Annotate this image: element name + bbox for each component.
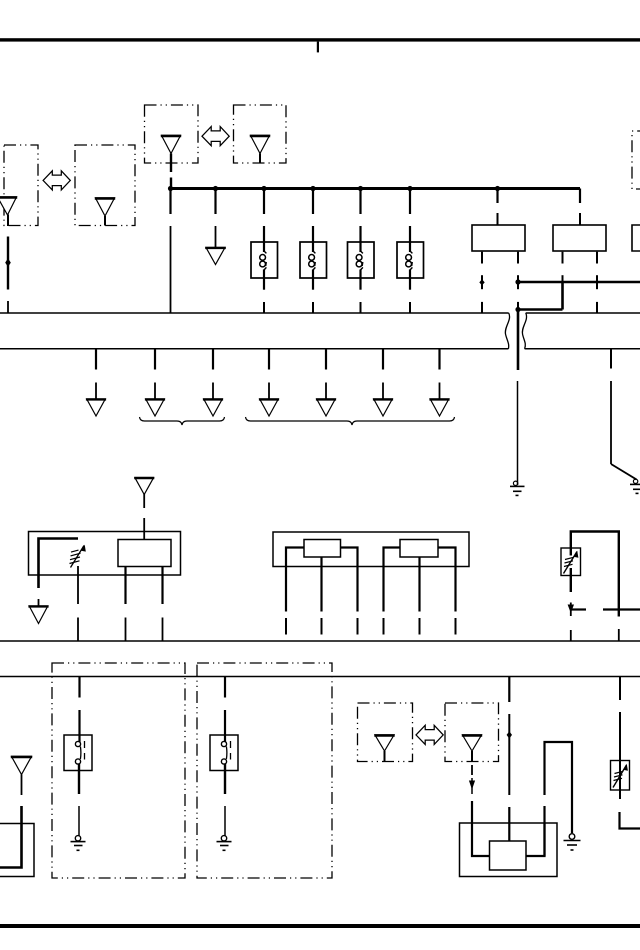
module box M2b (400, 540, 438, 558)
coupling arrow S5-S6 (416, 725, 443, 744)
bus wire (feeder) (171, 187, 581, 190)
harness tap t4 (259, 349, 279, 416)
harness tap t8 to ground G2 (611, 349, 637, 480)
wire A5 to amp box (143, 494, 145, 540)
filter box U2 (553, 225, 606, 251)
ground G1 (510, 481, 525, 495)
wire A8 down (469, 751, 475, 823)
top border line (0, 38, 640, 41)
wire line B right drop (619, 677, 621, 800)
shield box S6 (dash-dot) (445, 703, 499, 762)
ground G4 (71, 836, 86, 851)
wire M2b pin2 (418, 557, 420, 635)
wire bus to U1 (496, 189, 498, 226)
wire SW1 to ground G4 (78, 764, 80, 836)
wire line B to switch SW1 (78, 677, 80, 743)
antenna A3 (162, 136, 181, 154)
wire VR2 down (570, 548, 572, 592)
wire U2 pin1 elbow (518, 252, 563, 310)
junction dot n9 (515, 307, 520, 312)
shield box S3 (dash-dot) (145, 105, 199, 163)
wire to right edge (518, 281, 640, 284)
choke L4 (397, 189, 424, 314)
wire to right edge mid (603, 608, 640, 610)
wire U2 pin2 (596, 252, 598, 313)
wire M2a pin3 (341, 548, 358, 635)
harness tap t2 (145, 349, 165, 416)
wire M2a pin1 (286, 548, 304, 635)
filter box U3 (clipped right) (632, 225, 640, 251)
ground G2 (630, 479, 640, 493)
wire M1a pin2 (161, 567, 163, 642)
page arrow below M1 (28, 599, 48, 624)
wire drop d2 with page arrow (205, 189, 226, 265)
shield box S4 (dash-dot) (234, 105, 287, 163)
shield box S1 (dash-dot, clipped left) (4, 145, 38, 226)
wire B3 pin1 elbow (472, 823, 490, 856)
wire M2b pin1 (384, 548, 401, 635)
wire stub A1 to harness (7, 301, 9, 313)
stub M3a to bus (570, 630, 572, 641)
junction dot n5 (358, 186, 363, 191)
choke L2 (300, 189, 327, 314)
harness line lower (0, 348, 640, 350)
junction dot n6 (407, 186, 412, 191)
antenna A5 (135, 478, 154, 495)
distribution line B (0, 676, 640, 678)
connector arrow on A1 wire (5, 258, 11, 267)
wire B3 pin3 elbow (526, 823, 545, 856)
module box M2a (304, 540, 341, 558)
shield box S2 (dash-dot) (75, 145, 135, 226)
wire SW2 to ground G5 (224, 764, 226, 836)
bottom border line (0, 924, 640, 928)
wire U1 pin2 (517, 252, 519, 290)
coupling arrow S3-S4 (202, 127, 229, 146)
variable attenuator VR2 box (561, 548, 581, 576)
variable attenuator VR1 (70, 545, 86, 568)
top border tick (317, 42, 319, 53)
stub M3b to bus (618, 629, 620, 641)
connector arrow M3 (568, 603, 586, 617)
harness tap t7 (429, 349, 449, 416)
ground G5 (217, 836, 232, 851)
choke L3 (348, 189, 375, 314)
wire line B to switch SW2 (224, 677, 226, 743)
module box B3a (490, 841, 527, 870)
antenna A7 stub (384, 751, 386, 762)
harness tap t1 (86, 349, 106, 416)
antenna A1 (0, 197, 17, 215)
harness tap t5 (316, 349, 336, 416)
distribution line A (0, 640, 640, 642)
junction dot n4 (310, 186, 315, 191)
group brace 2 (246, 417, 455, 425)
radio unit box (clipped left) (0, 824, 34, 877)
wire elbow to right edge bottom (620, 812, 640, 829)
wire M2b pin3 (438, 548, 456, 635)
antenna A6 (12, 757, 32, 775)
wire antenna A1 down (7, 215, 9, 227)
switch SW1 (64, 735, 92, 771)
wire elbow to ground G6 (545, 742, 573, 856)
antenna A4 (251, 136, 270, 154)
coupling arrow S1-S2 (43, 171, 70, 190)
shield box top-right (dash-dot, clipped) (632, 131, 640, 189)
wire n9 to ground G1 (516, 310, 519, 486)
junction dot n1 (168, 186, 173, 191)
thick supply elbow in M1 (39, 539, 79, 589)
antenna A2 stub (104, 216, 106, 226)
harness line upper (0, 312, 640, 314)
wire A6 down (0, 775, 22, 868)
tuner unit box M1a (118, 540, 171, 567)
wire M2a pin2 (320, 557, 322, 635)
wire drop d1 (169, 189, 171, 314)
junction dot n3 (261, 186, 266, 191)
variable attenuator VR3 box (611, 761, 630, 791)
wire line B drop with connector (507, 677, 512, 842)
unit box B2 (dash-dot) (197, 663, 332, 878)
supply elbow M3 (571, 532, 619, 617)
antenna A4 stub (259, 154, 261, 164)
amplifier assembly box M2 (273, 532, 469, 567)
filter box U1 (472, 225, 525, 251)
ground G6 (564, 834, 581, 850)
wire M1a pin1 (124, 567, 126, 642)
wire antenna A3 to bus (170, 154, 172, 173)
junction dot n7 (495, 186, 500, 191)
wire VR1 down (dashed) (77, 566, 79, 641)
wire n8 to n9 (dashed) (517, 302, 519, 310)
junction dot n8 (515, 279, 520, 284)
unit box B1 (dash-dot) (52, 663, 185, 878)
amplifier assembly box B3 (460, 823, 558, 877)
junction dot n2 (213, 186, 218, 191)
harness tap t6 (373, 349, 393, 416)
amplifier assembly box M1 (29, 532, 181, 576)
harness break squiggle left (505, 313, 509, 349)
antenna A7 (375, 735, 394, 751)
harness tap t3 (203, 349, 223, 416)
harness break squiggle right (522, 313, 526, 349)
wire U1 pin1 (479, 252, 484, 313)
choke L1 (251, 189, 278, 314)
switch SW2 (210, 735, 238, 771)
shield box S5 (dash-dot) (358, 703, 413, 762)
antenna A2 (96, 198, 115, 216)
group brace 1 (140, 417, 225, 425)
wire bus corner to U2 (579, 189, 581, 226)
antenna A8 (463, 735, 482, 751)
